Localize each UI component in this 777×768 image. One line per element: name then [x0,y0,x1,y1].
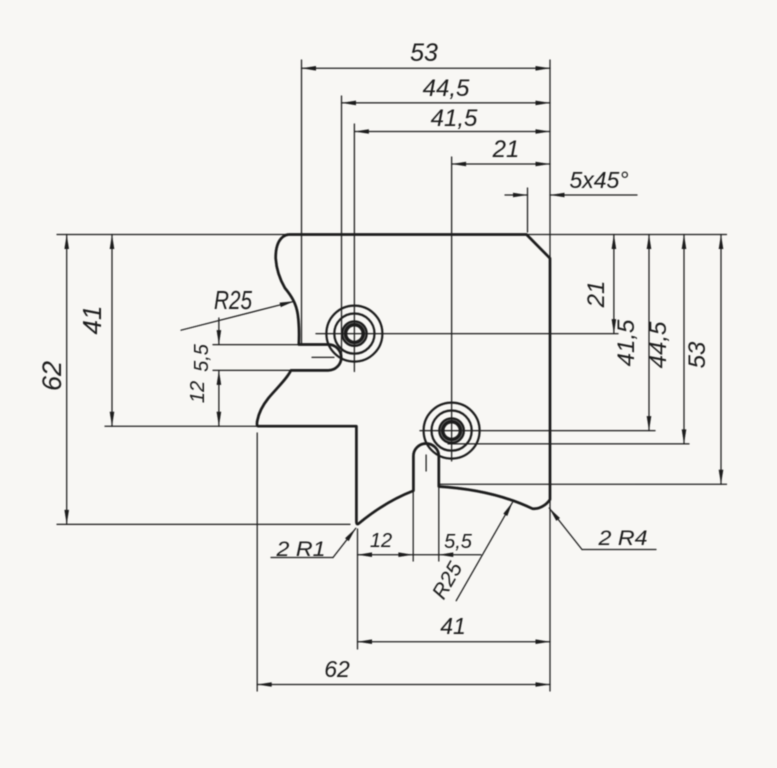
bottom edge extension left [57,523,350,525]
arrow dim 5,5 bottom [439,552,454,557]
dim line 41 bottom [358,641,551,643]
dim line 5,5 left tail [218,318,220,345]
right edge extension down [549,491,551,691]
hole 1 outer circle [326,306,382,362]
slot 2 left extension [412,492,414,561]
svg-text:62: 62 [324,656,350,682]
extension 44,5 right [448,443,689,445]
svg-text:44,5: 44,5 [645,321,672,368]
top edge extension left [57,234,287,236]
arrows dim 41 bottom [358,639,373,644]
svg-text:53: 53 [410,39,438,67]
dim line 12 bottom [358,554,413,556]
hole 1 thick ring [342,321,366,345]
svg-text:12: 12 [187,381,209,403]
arrows dim 41 left [110,235,115,250]
hole 1 horizontal centerline [316,333,618,335]
svg-text:44,5: 44,5 [423,75,470,102]
hole 2 outer circle [424,403,480,459]
dim line 21 right [613,235,615,334]
right edge extension up [549,60,551,258]
arrows dim 62 left [64,235,69,250]
svg-text:21: 21 [583,281,610,309]
arrows dim 12 left [217,370,222,385]
dim line 44,5 top [342,102,551,104]
left step vertical extension [256,433,258,691]
extension 44,5 left [341,96,343,357]
svg-text:2 R1: 2 R1 [275,538,325,561]
hole 2 horizontal centerline [420,430,655,432]
arrows dim 21 top [452,162,467,167]
svg-text:41: 41 [440,613,466,639]
slot 2 centerline [425,455,427,471]
arrow 2 R4 [547,507,560,521]
dim line 62 left [66,235,68,525]
svg-text:53: 53 [684,341,711,368]
arrows dim 21 right [612,235,617,250]
svg-text:21: 21 [492,136,520,163]
slot 1 centerline [312,356,334,358]
svg-text:5x45°: 5x45° [569,167,628,193]
svg-text:41,5: 41,5 [613,319,640,366]
arrows dim 53 top [302,66,317,71]
dim line 53 right [720,235,722,485]
leader 2 R1 [333,528,356,557]
dim line 41,5 right [648,235,650,431]
svg-text:41,5: 41,5 [431,105,478,132]
hole 1 inner ring [346,325,364,343]
leader R25 upper [181,301,294,330]
arrow 2 R1 [345,527,358,541]
arrows dim 62 bottom [257,682,272,687]
hole 2 vertical centerline [451,157,453,461]
svg-text:5,5: 5,5 [191,343,213,372]
R1 corner vertical extension [357,529,359,649]
arrows dim 44,5 top [342,101,357,106]
hole 2 second circle [432,411,472,451]
step line extension [105,425,258,427]
arrows chamfer 5x45 [513,193,528,198]
dim line 62 bottom [257,684,550,686]
svg-text:R25: R25 [214,285,252,315]
leader 2 R1 shelf [271,557,333,559]
arrow dim 5,5 left [217,330,222,345]
arrow R25 upper [280,299,295,307]
part outline [257,235,550,525]
slot 2 right extension [438,488,440,561]
dim line 41 left [111,235,113,427]
svg-text:2 R4: 2 R4 [597,527,647,550]
svg-text:5,5: 5,5 [444,531,473,553]
arrows dim 41,5 top [354,129,369,134]
slot 1 bottom extension [213,369,291,371]
dim line 21 top [452,163,550,165]
slot 1 top extension [213,344,299,346]
svg-text:41: 41 [77,306,107,335]
leader 2 R4 [549,508,582,550]
hole 2 thick ring [439,418,463,442]
extension 53 right [440,483,727,485]
hole 2 inner ring [443,422,461,440]
dim line 12 left [218,370,220,426]
svg-text:62: 62 [37,361,67,391]
arrows dim 53 right [719,235,724,250]
leader 2 R4 shelf [582,549,656,551]
dim line 5x45 [505,194,528,196]
arrows dim 41,5 right [647,235,652,250]
dim line 44,5 right [683,235,685,444]
arrows dim 44,5 right [682,235,687,250]
svg-text:12: 12 [370,530,392,552]
arrow R25 lower [503,501,514,516]
leader R25 lower [456,502,512,600]
hole 1 vertical centerline [353,124,355,372]
dim line 41,5 top [354,131,550,133]
chamfer extension [527,188,529,232]
extension 53 left [301,60,303,345]
arrows dim 12 bottom [358,552,373,557]
hole 1 second circle [334,314,374,354]
svg-text:R25: R25 [428,558,467,603]
top edge extension right [527,234,727,236]
dim line 5,5 bottom [413,554,481,556]
dim line 53 top [302,67,551,69]
